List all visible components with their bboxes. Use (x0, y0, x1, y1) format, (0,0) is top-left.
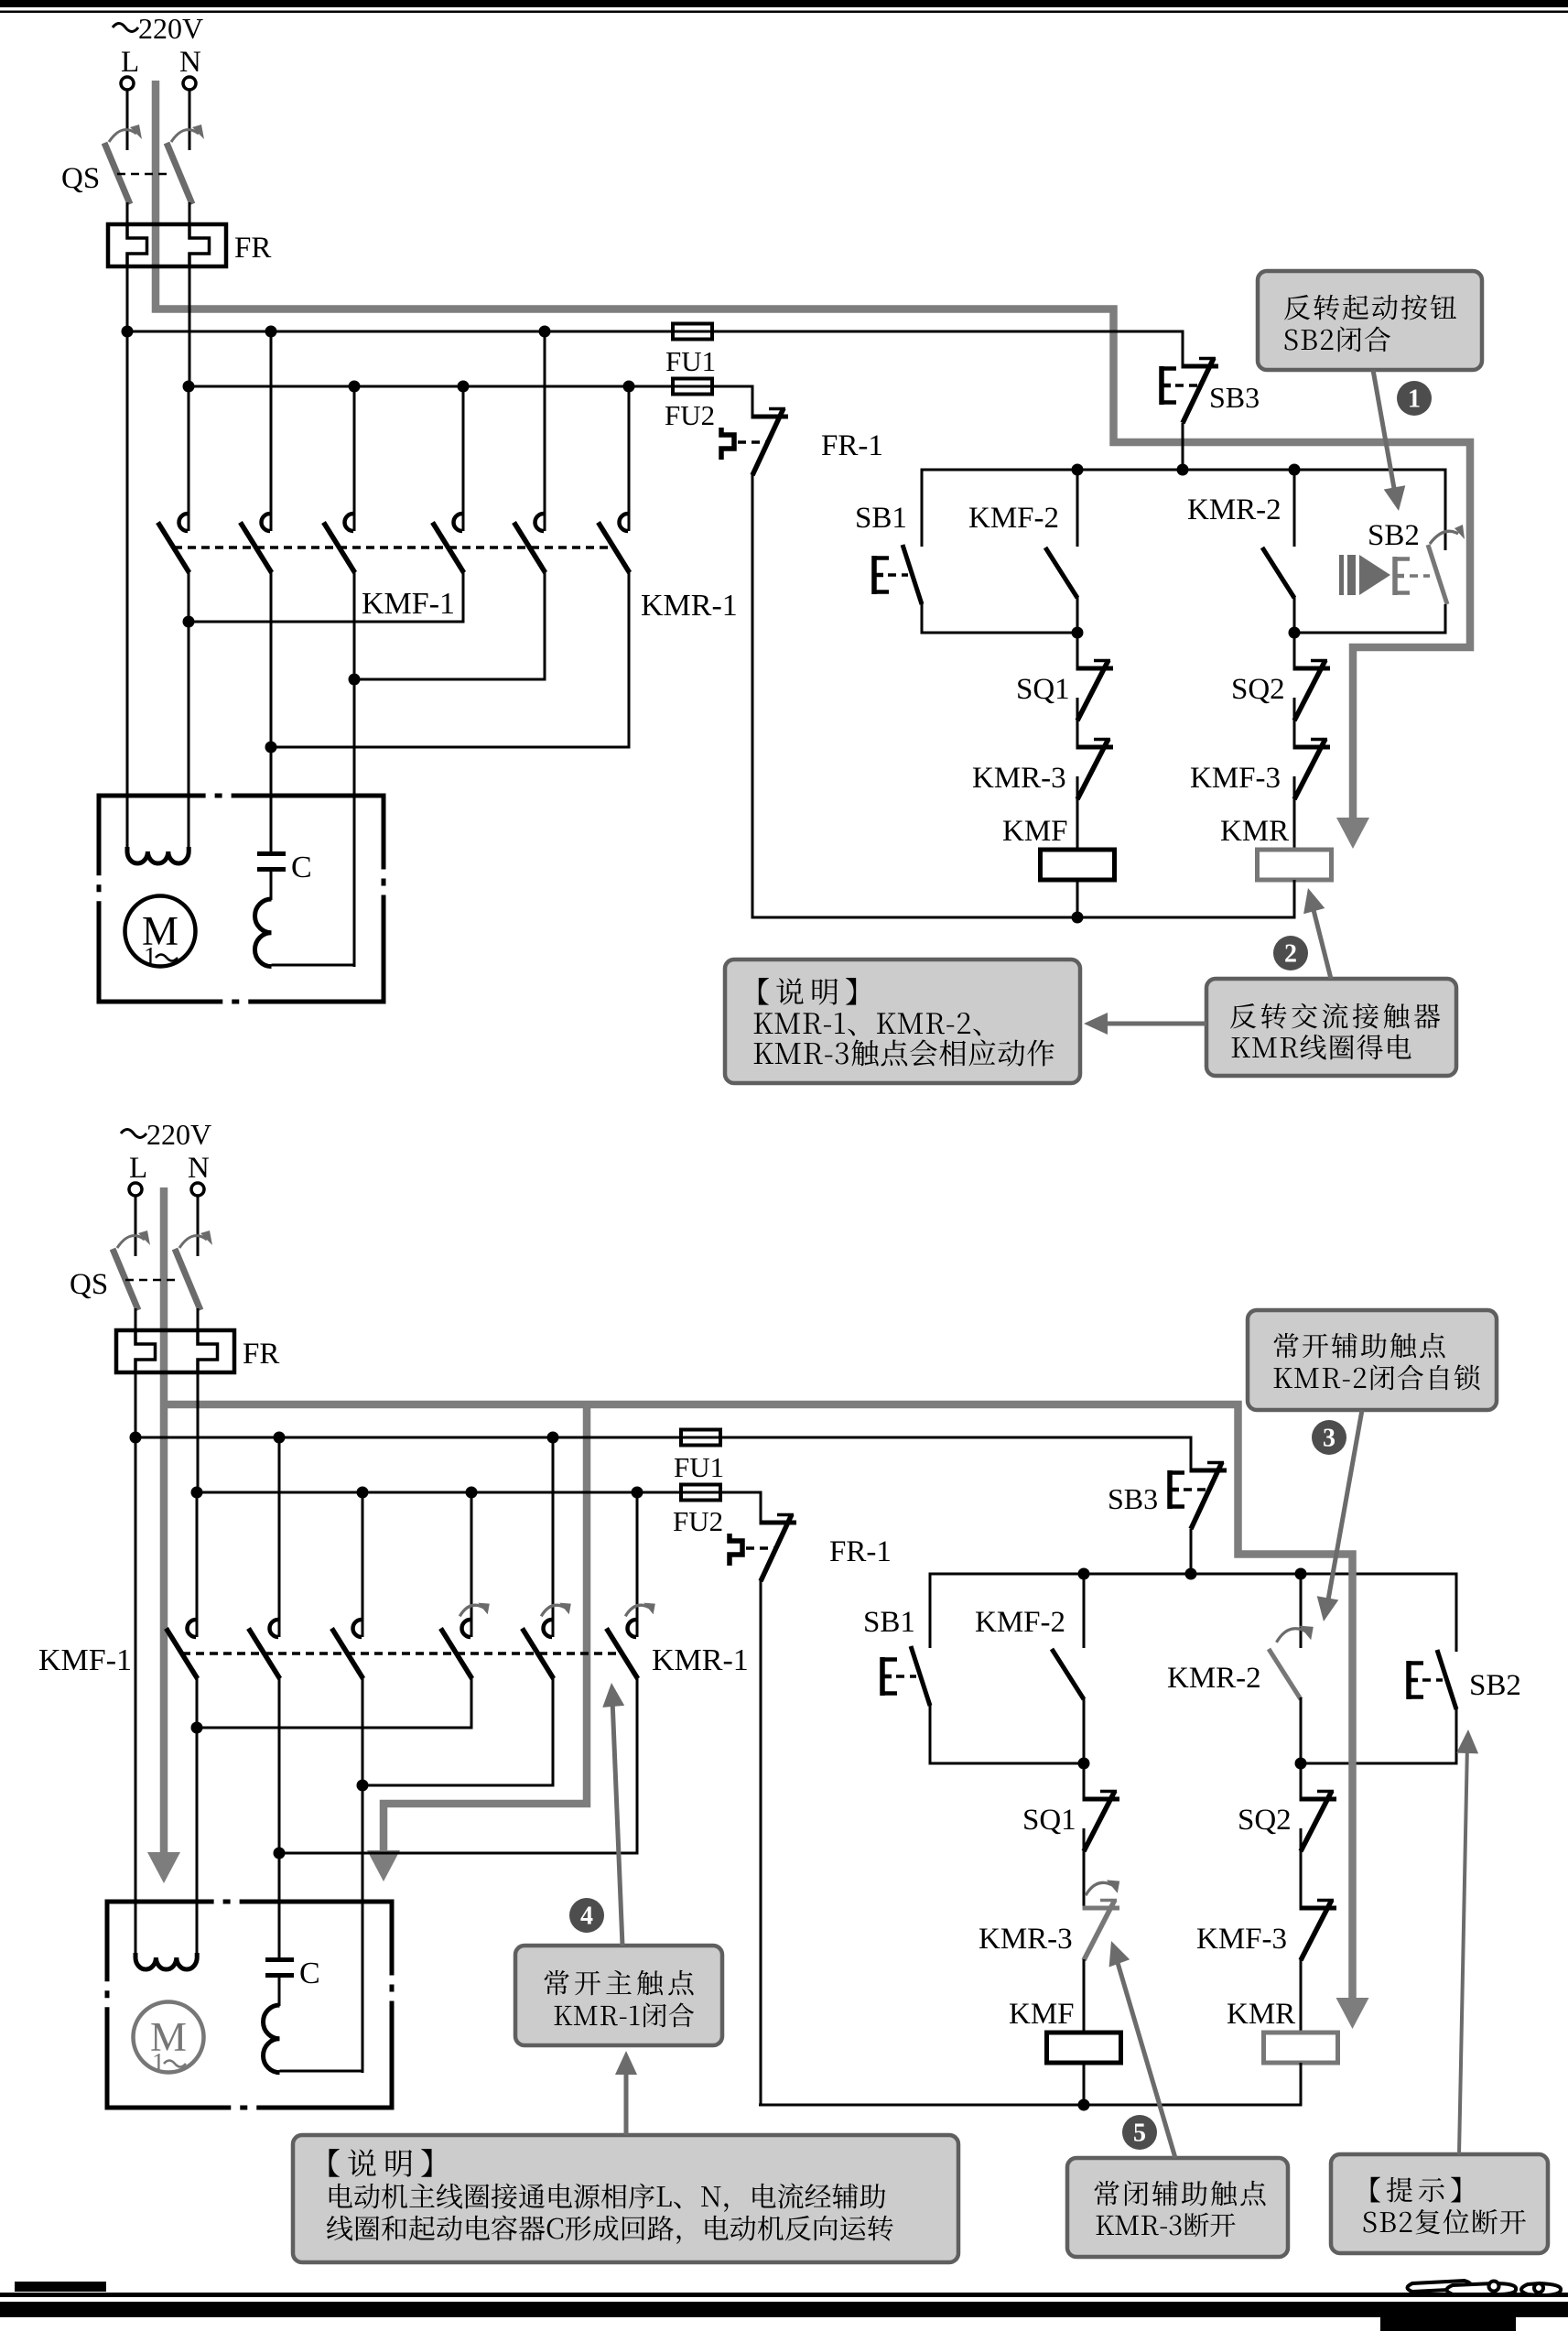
FR-1 actuator bracket (top) (721, 428, 734, 460)
svg-text:KMR-2: KMR-2 (1167, 1662, 1261, 1695)
node bus2-col4 (top) (458, 381, 470, 393)
svg-text:KMF-1: KMF-1 (38, 1643, 132, 1677)
wire KMF-2 lower (bottom) (1083, 1697, 1086, 1763)
capacitor C (bottom) (265, 1957, 294, 1962)
wire KMR-3 to KMF coil (top) (1076, 776, 1079, 851)
svg-text:FR-1: FR-1 (821, 429, 883, 462)
SB3 actuator (bottom) (1167, 1470, 1173, 1509)
wire FU1 to SB3 drop (bottom) (720, 1437, 1193, 1439)
stop button SB3 (bottom) (1190, 1469, 1227, 1473)
thermal contact FR-1 (bottom) (760, 1521, 797, 1525)
wire KMF-3 to KMR coil (top) (1293, 776, 1296, 851)
svg-text:KMR: KMR (1227, 1998, 1295, 2031)
wire SQ1 to KMR-3 (top) (1076, 698, 1079, 747)
press arrow at SB2 (top) (1339, 555, 1344, 595)
limit switch SQ1 (bottom) (1083, 1797, 1120, 1802)
arrowhead into motor aux branch (bottom) (367, 1850, 400, 1881)
scroll decoration (1408, 2281, 1562, 2295)
contactor contact KMF-1 pole2 (top) (262, 514, 271, 531)
switch QS pole L (top) (104, 143, 130, 204)
page top border bar (0, 0, 1568, 7)
wire KMF branch to SQ1 (top) (1076, 633, 1079, 668)
wire FR-1 to control rail left (top) (752, 473, 754, 919)
wire SB2 lower (bottom) (1455, 1708, 1458, 1765)
label ~220V (bottom) (121, 1130, 146, 1138)
wire col1 into motor (bottom) (196, 1728, 199, 1961)
wire SB2 upper (top) (1444, 469, 1447, 551)
wire SB1 lower (top) (921, 603, 924, 634)
SB2 linkage dashed (top) (1410, 574, 1430, 578)
wire col1 from bus2 (bottom) (196, 1492, 199, 1637)
QS closing arrow N (bottom) (179, 1236, 207, 1248)
wire col4 lower (top) (462, 572, 465, 623)
bus line 2 N-phase (top) (189, 385, 674, 388)
thermal relay FR box (top) (108, 224, 226, 266)
svg-text:SB2: SB2 (1368, 519, 1420, 552)
svg-text:KMF-2: KMF-2 (975, 1606, 1065, 1639)
wire col2 lower (bottom) (278, 1678, 281, 1855)
wire L terminal to QS (bottom) (135, 1197, 137, 1257)
motor circle M 1~ (bottom) (134, 2002, 204, 2073)
page bottom right tab (1380, 2317, 1516, 2331)
parallel loop bottom rail SB1/KMF-2 (bottom) (929, 1762, 1085, 1765)
wire KMF-3 to KMR coil (bottom) (1300, 1959, 1303, 2033)
terminal L (top) (121, 77, 134, 90)
control bottom rail (bottom) (759, 2104, 1303, 2107)
wire col5 lower (top) (544, 572, 546, 681)
highlighted current path L feed (bottom) (160, 1187, 168, 1854)
wire KMF-2 upper (bottom) (1083, 1574, 1086, 1648)
arrow bubble to KMR-1 contact (bottom) (612, 1699, 622, 1946)
arrow bubble to SB2 (top) (1373, 370, 1395, 493)
svg-text:KMR-3: KMR-3 (972, 762, 1066, 795)
wire KMF coil to rail (bottom) (1083, 2063, 1086, 2107)
wire KMR branch to SQ2 (top) (1293, 633, 1296, 668)
wire col5 lower (bottom) (552, 1678, 555, 1787)
svg-text:SB3: SB3 (1108, 1482, 1158, 1515)
fuse FU2 (top) (673, 379, 712, 395)
svg-text:KMF: KMF (1009, 1998, 1075, 2031)
svg-text:KMF-1: KMF-1 (362, 587, 455, 621)
svg-text:1: 1 (144, 943, 157, 971)
terminal N (top) (183, 77, 196, 90)
wire FR to bus L (top) (126, 266, 129, 331)
parallel loop bottom rail SB1/KMF-2 (top) (921, 632, 1078, 634)
start button SB1 (top) (903, 545, 922, 604)
node bus2-col6 (top) (623, 381, 635, 393)
wire KMR-2 lower (bottom) (1300, 1697, 1303, 1763)
callout bubble: KMR coil energized (top) (1206, 979, 1456, 1076)
fuse FU1 (bottom) (681, 1430, 720, 1446)
wire col3 from bus2 (bottom) (362, 1492, 364, 1637)
page bottom left mark (15, 2282, 106, 2292)
node loop1 (top) (1072, 627, 1084, 639)
svg-text:220V: 220V (146, 1118, 211, 1151)
switch QS pole L (bottom) (113, 1249, 138, 1310)
motor main winding (top) (127, 847, 189, 863)
QS closing arrow L (top) (109, 130, 136, 142)
start button SB2 (bottom) (1437, 1650, 1456, 1709)
arrowhead into KMR coil (bottom) (1336, 1998, 1369, 2029)
selflock contact KMF-2 (top) (1045, 548, 1077, 598)
svg-text:C: C (291, 851, 312, 884)
wire L terminal to QS (top) (126, 91, 129, 151)
node bus2-col4 (bottom) (466, 1487, 478, 1499)
wire FU1 to SB3 drop (top) (712, 331, 1184, 333)
interlock contact KMR-3 (top) (1076, 745, 1114, 750)
wire N terminal to QS (top) (189, 91, 191, 151)
motor enclosure box (bottom) (105, 1900, 214, 1904)
FR-1 actuator bracket (bottom) (730, 1534, 742, 1566)
svg-text:N: N (188, 1152, 210, 1185)
limit switch SQ2 (bottom) (1300, 1797, 1337, 1802)
wire L into motor (top) (126, 331, 129, 855)
contactor contact KMF-1 pole3 (top) (345, 514, 354, 531)
arrow bubble to KMR-3 (bottom) (1116, 1957, 1175, 2158)
svg-text:KMR-1: KMR-1 (652, 1643, 749, 1677)
page top rule (0, 11, 1568, 14)
interlock contact KMF-3 (bottom) (1300, 1906, 1337, 1911)
page bottom rule (0, 2293, 1568, 2297)
wire SB1 upper (bottom) (929, 1573, 932, 1649)
wire col3 lower (bottom) (362, 1678, 364, 1787)
wire aux winding to col3 (top) (272, 964, 356, 967)
limit switch SQ2 (top) (1293, 667, 1331, 671)
wire SB2 upper (bottom) (1455, 1573, 1458, 1653)
wire QS N to FR (top) (189, 202, 191, 226)
svg-text:KMF: KMF (1002, 815, 1068, 848)
wire SB2 lower (top) (1444, 604, 1447, 634)
KMR-3 rotation arrow (bottom) (1086, 1882, 1113, 1895)
bus line 1 L-phase (bottom) (135, 1437, 682, 1439)
wire KMF coil to rail (top) (1076, 880, 1079, 919)
node rail-SB3 (bottom) (1185, 1568, 1197, 1580)
node bottom rail (bottom) (1078, 2099, 1090, 2111)
interlock contact KMF-3 (top) (1293, 745, 1331, 750)
wire col1 lower (top) (188, 572, 190, 623)
svg-text:KMF-3: KMF-3 (1196, 1923, 1287, 1956)
node rail-KMR2 (bottom) (1295, 1568, 1307, 1580)
wire SB3 to rail (bottom) (1190, 1529, 1193, 1574)
arrowhead into motor main winding (bottom) (147, 1852, 180, 1883)
callout bubble: KMR-3 opens (bottom) (1067, 2158, 1288, 2257)
circled number 5 (1122, 2115, 1157, 2150)
callout bubble: reverse start button SB2 closes (top) (1258, 271, 1482, 370)
svg-text:1: 1 (1408, 385, 1421, 414)
contactor contact KMR-1 pole1 (top) (454, 514, 463, 531)
contactor contact KMR-1 pole2 closing (bottom) (544, 1620, 553, 1637)
QS closing arrow L (bottom) (117, 1236, 145, 1248)
node L-bus (top) (122, 326, 134, 338)
wire KMR-2 lower (top) (1293, 596, 1296, 633)
svg-text:SB2: SB2 (1469, 1669, 1521, 1702)
SB1 actuator (top) (871, 556, 877, 594)
tip box: SB2 resets open (bottom) (1331, 2154, 1548, 2253)
node bus2-col1 (top) (183, 381, 195, 393)
svg-text:FR: FR (234, 232, 271, 265)
FR heater element L (bottom) (135, 1331, 156, 1373)
arrow KMR bubble to KMR coil (top) (1311, 899, 1331, 979)
wire SB1 upper (top) (921, 469, 924, 548)
page bottom bar (0, 2302, 1568, 2317)
FR heater element N (top) (189, 225, 210, 267)
junction row col2-col6 (bottom) (278, 1852, 639, 1855)
wire FR to bus L (bottom) (135, 1371, 137, 1437)
FR heater element N (bottom) (198, 1331, 218, 1373)
junction row col3-col5 (top) (353, 678, 546, 681)
wire SB1 lower (bottom) (929, 1705, 932, 1765)
arrow explain box to KMR-1 bubble (bottom) (624, 2062, 629, 2135)
KMR-2 rotation arrow (bottom) (1277, 1629, 1307, 1643)
node bus1-col5 (top) (539, 326, 551, 338)
fuse FU2 (bottom) (681, 1485, 720, 1501)
svg-text:QS: QS (70, 1268, 108, 1301)
arrow bubble to KMR-2 (bottom) (1327, 1410, 1362, 1605)
svg-text:KMF-2: KMF-2 (968, 502, 1059, 535)
highlighted current path (top, L feed) (156, 81, 1470, 819)
wire col3 lower (top) (353, 572, 356, 681)
wire N terminal to QS (bottom) (197, 1197, 200, 1257)
node loop2 (bottom) (1295, 1758, 1307, 1770)
control rail top (top) (921, 469, 1447, 472)
node loop2 (top) (1289, 627, 1301, 639)
svg-text:KMR-2: KMR-2 (1187, 493, 1281, 526)
start button SB1 (bottom) (911, 1646, 930, 1706)
SB1 linkage dashed (bottom) (896, 1675, 916, 1678)
selflock contact KMR-2 (top) (1262, 548, 1294, 598)
node row1 (top) (183, 616, 195, 628)
contactor contact KMF-1 pole1 (bottom) (188, 1620, 197, 1637)
svg-text:1: 1 (152, 2049, 165, 2077)
node L-bus (bottom) (130, 1432, 142, 1444)
svg-text:SQ1: SQ1 (1022, 1804, 1076, 1837)
svg-text:FU1: FU1 (674, 1451, 724, 1483)
contactor coil KMF (bottom) (1047, 2033, 1121, 2063)
contactor contact KMF-1 pole3 (bottom) (353, 1620, 362, 1637)
svg-text:FR-1: FR-1 (829, 1535, 892, 1568)
node row3 (top) (265, 742, 277, 754)
node rail-KMF2 (top) (1072, 464, 1084, 476)
svg-text:QS: QS (61, 162, 100, 195)
wire KMF branch to SQ1 (bottom) (1083, 1763, 1086, 1799)
svg-text:L: L (121, 46, 139, 79)
svg-text:5: 5 (1133, 2120, 1146, 2148)
svg-text:SQ2: SQ2 (1231, 673, 1285, 706)
SB2 linkage dashed (bottom) (1422, 1678, 1443, 1682)
SB2 actuator (top) (1392, 557, 1398, 595)
wire SQ1 to KMR-3 (bottom) (1083, 1828, 1086, 1908)
callout bubble: main contact KMR-1 closes (bottom) (515, 1946, 722, 2045)
contact linkage dashed (top) (174, 546, 615, 549)
svg-text:FU2: FU2 (665, 399, 715, 431)
circled number 3 (1312, 1420, 1346, 1455)
svg-text:SQ2: SQ2 (1238, 1804, 1292, 1837)
highlighted path to KMR-1 contacts (bottom) (384, 1404, 587, 1853)
wire col6 lower (bottom) (636, 1678, 639, 1855)
highlighted path horizontal (bottom) (164, 1404, 1238, 1558)
parallel loop bottom rail KMR-2/SB2 (top) (1293, 632, 1447, 634)
svg-text:SB1: SB1 (855, 502, 907, 535)
wire FR to bus N (top) (189, 266, 191, 387)
svg-text:220V: 220V (138, 12, 203, 45)
svg-text:L: L (129, 1152, 147, 1185)
control rail top (bottom) (929, 1573, 1458, 1576)
wire SQ2 to KMF-3 (bottom) (1300, 1828, 1303, 1908)
contactor contact KMF-1 pole1 (top) (179, 514, 189, 531)
SB3 actuator (top) (1159, 366, 1164, 405)
junction row col2-col6 (top) (270, 746, 631, 749)
wire aux winding to col3 (bottom) (280, 2070, 364, 2073)
wire col4 lower (bottom) (470, 1678, 473, 1729)
wire col1 into motor (top) (188, 622, 190, 855)
contactor coil KMR gray (bottom) (1264, 2033, 1338, 2063)
parallel loop bottom rail KMR-2/SB2 (bottom) (1300, 1762, 1458, 1765)
FR-1 linkage dashed (bottom) (746, 1546, 775, 1550)
wire col2 to capacitor (top) (270, 747, 273, 853)
wire FR to bus N (bottom) (197, 1371, 200, 1493)
wire KMR branch to SQ2 (bottom) (1300, 1763, 1303, 1799)
node rail-KMR2 (top) (1289, 464, 1301, 476)
node rail-SB3 (top) (1177, 464, 1189, 476)
interlock contact KMR-3 opening (bottom) (1083, 1906, 1120, 1911)
svg-text:KMR: KMR (1220, 815, 1289, 848)
junction row col1-col4 (bottom) (196, 1727, 473, 1729)
selflock contact KMR-2 closing (bottom) (1269, 1649, 1301, 1699)
contactor contact KMR-1 pole3 closing (bottom) (628, 1620, 637, 1637)
wire L into motor (bottom) (135, 1437, 137, 1961)
node row2 (top) (349, 674, 361, 686)
node rail-KMF2 (bottom) (1078, 1568, 1090, 1580)
svg-text:N: N (179, 46, 201, 79)
SB1 linkage dashed (top) (888, 573, 908, 577)
svg-text:FR: FR (243, 1338, 279, 1371)
QS linkage dashed (top) (117, 173, 170, 176)
contactor coil KMF (top) (1041, 850, 1115, 880)
node row2 (bottom) (357, 1780, 369, 1792)
junction row col3-col5 (bottom) (362, 1784, 555, 1787)
wire col2 to capacitor (bottom) (278, 1853, 281, 1959)
wire col3 from bus2 (top) (353, 386, 356, 531)
svg-text:SQ1: SQ1 (1016, 673, 1070, 706)
wire QS L to FR (top) (126, 202, 129, 226)
wire KMR-3 to KMF coil (bottom) (1083, 1959, 1086, 2033)
svg-text:KMF-3: KMF-3 (1190, 762, 1281, 795)
wire KMR coil to rail (bottom) (1300, 2063, 1303, 2107)
svg-text:FU2: FU2 (673, 1505, 723, 1537)
capacitor C (top) (257, 851, 286, 856)
svg-text:KMR-3: KMR-3 (979, 1923, 1073, 1956)
motor aux winding (top) (254, 899, 271, 967)
wire KMR coil to rail (top) (1293, 880, 1296, 919)
label ~220V (top) (113, 24, 138, 32)
SB2 actuator (bottom) (1406, 1661, 1411, 1699)
wire col5 from bus1 (bottom) (552, 1437, 555, 1637)
junction row col1-col4 (top) (188, 621, 465, 623)
wire QS L to FR (bottom) (135, 1308, 137, 1332)
node bus2-col1 (bottom) (191, 1487, 203, 1499)
motor aux winding (bottom) (263, 2005, 279, 2073)
wire col3 to aux winding (top) (353, 679, 356, 967)
wire FU2 to FR-1 (top) (712, 386, 752, 417)
wire KMF-2 lower (top) (1076, 596, 1079, 633)
wire SQ2 to KMF-3 (top) (1293, 698, 1296, 747)
svg-text:KMR-1: KMR-1 (641, 589, 738, 623)
svg-text:C: C (299, 1957, 320, 1990)
svg-text:SB3: SB3 (1209, 381, 1260, 414)
node bus2-col3 (bottom) (357, 1487, 369, 1499)
node bus1-col2 (top) (265, 326, 277, 338)
switch QS pole N (top) (167, 143, 192, 204)
contactor contact KMR-1 pole3 (top) (620, 514, 629, 531)
bus line 1 L-phase (top) (127, 331, 674, 333)
wire FR-1 to control rail left (bottom) (760, 1579, 762, 2107)
node bus2-col3 (top) (349, 381, 361, 393)
switch QS pole N (bottom) (175, 1249, 200, 1310)
highlighted path through control to KMR coil (bottom) (1235, 1555, 1353, 2002)
contactor contact KMF-1 pole2 (bottom) (270, 1620, 279, 1637)
SB2 rotation arrow (top) (1430, 531, 1458, 544)
motor circle M 1~ (top) (125, 896, 196, 967)
arrow tip box to SB2 (bottom) (1459, 1744, 1467, 2154)
explain box: KMR contacts act (top) (725, 960, 1080, 1083)
circled number 1 (1397, 381, 1432, 416)
svg-text:3: 3 (1323, 1425, 1336, 1453)
stop button SB3 (top) (1182, 363, 1184, 366)
QS closing arrow N (top) (171, 130, 199, 142)
wire col4 from bus2 (top) (462, 386, 465, 531)
wire col1 lower (bottom) (196, 1678, 199, 1729)
node row1 (bottom) (191, 1722, 203, 1734)
contactor coil KMR gray (top) (1258, 850, 1332, 880)
arrow KMR bubble to explain box (top) (1095, 1022, 1206, 1026)
motor main winding (bottom) (135, 1953, 197, 1969)
FR-1 linkage dashed (top) (738, 440, 767, 444)
wire KMR-2 upper (bottom) (1300, 1574, 1303, 1648)
fuse FU1 (top) (673, 324, 712, 340)
svg-text:FU1: FU1 (665, 345, 716, 377)
limit switch SQ1 (top) (1076, 667, 1114, 671)
node loop1 (bottom) (1078, 1758, 1090, 1770)
QS linkage dashed (bottom) (125, 1279, 178, 1282)
wire FU2 to FR-1 (bottom) (720, 1492, 761, 1523)
node bottom rail (top) (1072, 912, 1084, 924)
wire col2 from bus1 (top) (270, 331, 273, 531)
SB3 linkage dashed (top) (1175, 384, 1199, 387)
SB3 linkage dashed (bottom) (1184, 1488, 1207, 1491)
circled number 2 (1273, 936, 1308, 970)
node row3 (bottom) (274, 1848, 286, 1859)
control bottom rail (top) (752, 916, 1296, 919)
wire col6 lower (top) (628, 572, 631, 749)
svg-text:4: 4 (580, 1903, 593, 1931)
wire col6 from bus2 (top) (628, 386, 631, 531)
wire col5 from bus1 (top) (544, 331, 546, 531)
terminal N (bottom) (191, 1183, 204, 1196)
SB1 actuator (bottom) (880, 1657, 885, 1696)
node bus1-col2 (bottom) (274, 1432, 286, 1444)
wire KMF-2 upper (top) (1076, 470, 1079, 547)
node bus2-col6 (bottom) (632, 1487, 643, 1499)
svg-text:2: 2 (1284, 940, 1297, 969)
start button SB2 pressed (top) (1428, 545, 1447, 604)
wire col6 from bus2 (bottom) (636, 1492, 639, 1637)
wire QS N to FR (bottom) (197, 1308, 200, 1332)
explain box: motor reverses (bottom) (293, 2135, 958, 2262)
wire KMR-2 upper (top) (1293, 470, 1296, 547)
wire col1 from bus2 (top) (188, 386, 190, 531)
contactor contact KMR-1 pole1 closing (bottom) (462, 1620, 471, 1637)
wire col2 lower (top) (270, 572, 273, 749)
